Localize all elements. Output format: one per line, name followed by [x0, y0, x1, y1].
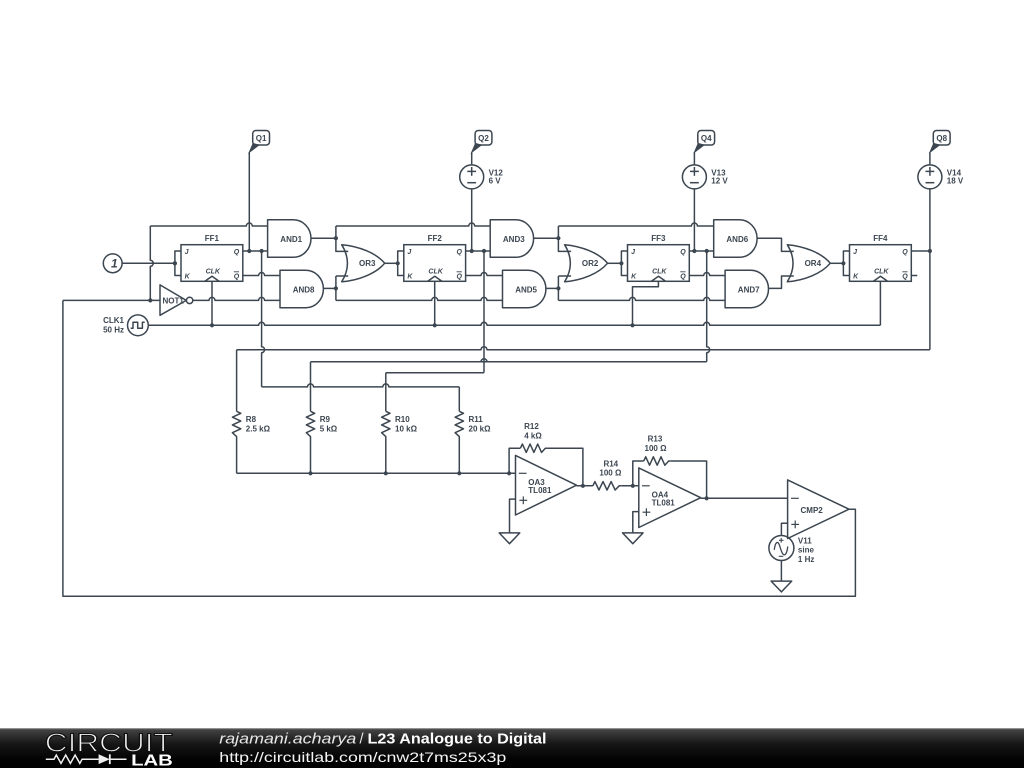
svg-text:NOT1: NOT1	[163, 296, 185, 305]
wire	[148, 322, 880, 327]
wire	[689, 273, 725, 276]
or gate OR2	[565, 245, 608, 282]
wire	[243, 249, 268, 253]
and gate AND1	[268, 220, 311, 257]
probe flag Q8	[930, 131, 950, 153]
svg-text:L23 Analogue to Digital: L23 Analogue to Digital	[368, 732, 547, 748]
wire	[558, 226, 571, 251]
inverter NOT1	[160, 285, 193, 315]
svg-text:TL081: TL081	[652, 498, 676, 507]
svg-text:sine: sine	[798, 546, 815, 555]
svg-text:R14: R14	[603, 459, 618, 468]
resistor R8	[232, 411, 270, 438]
wire	[701, 497, 788, 499]
svg-text:4 kΩ: 4 kΩ	[524, 431, 542, 440]
svg-text:18 V: 18 V	[947, 176, 964, 185]
probe flag Q2	[472, 131, 492, 153]
svg-text:6 V: 6 V	[489, 176, 502, 185]
wire	[384, 439, 388, 476]
probe flag Q1	[249, 131, 269, 153]
svg-text:Q: Q	[902, 274, 908, 281]
svg-text:Q: Q	[680, 249, 686, 256]
svg-text:FF2: FF2	[428, 234, 443, 243]
footer bar	[0, 728, 1024, 768]
wire	[929, 189, 931, 251]
wire	[457, 439, 461, 476]
svg-text:Q4: Q4	[701, 134, 712, 143]
wire	[308, 439, 312, 476]
svg-text:AND7: AND7	[738, 286, 760, 295]
wire	[633, 461, 644, 486]
resistor R12	[520, 422, 547, 453]
resistor R10	[382, 411, 418, 438]
wire	[558, 276, 571, 300]
svg-text:Q: Q	[234, 274, 240, 281]
or gate OR4	[787, 245, 830, 282]
svg-text:100 Ω: 100 Ω	[599, 469, 622, 478]
wire	[434, 281, 436, 325]
wire	[509, 448, 520, 473]
wire	[211, 281, 213, 325]
and gate AND6	[714, 220, 757, 257]
svg-text:AND1: AND1	[280, 235, 302, 244]
and gate AND8	[280, 270, 323, 308]
flip-flop FF2	[396, 234, 466, 281]
wire	[780, 561, 782, 582]
voltage source V14	[918, 165, 964, 189]
svg-text:CLK: CLK	[874, 269, 889, 276]
svg-text:1: 1	[111, 257, 118, 271]
svg-text:12 V: 12 V	[711, 176, 728, 185]
or gate OR3	[342, 245, 385, 282]
footer title text	[219, 732, 546, 748]
svg-text:Q: Q	[680, 274, 686, 281]
wire	[122, 261, 177, 265]
clock source CLK1	[103, 315, 148, 336]
and gate AND7	[725, 270, 768, 308]
comparator CMP2	[788, 480, 849, 539]
svg-text:2.5 kΩ: 2.5 kΩ	[246, 425, 271, 434]
wire	[633, 281, 659, 325]
svg-text:Q: Q	[902, 249, 908, 256]
svg-text:Q1: Q1	[256, 134, 267, 143]
wire	[311, 251, 710, 411]
resistor R9	[306, 411, 338, 438]
svg-text:AND5: AND5	[515, 286, 537, 295]
svg-text:CLK: CLK	[652, 269, 667, 276]
op-amp OA3	[516, 455, 577, 515]
resistor R11	[455, 411, 491, 438]
svg-text:R8: R8	[246, 415, 257, 424]
svg-text:Q: Q	[457, 249, 463, 256]
svg-text:10 kΩ: 10 kΩ	[395, 425, 418, 434]
wire	[693, 152, 695, 165]
wire	[621, 484, 639, 488]
svg-text:Q8: Q8	[936, 134, 947, 143]
svg-text:Q2: Q2	[478, 134, 489, 143]
svg-text:Q: Q	[234, 249, 240, 256]
svg-text:AND8: AND8	[293, 286, 315, 295]
ground	[499, 533, 520, 544]
flip-flop FF4	[841, 234, 911, 281]
svg-text:AND6: AND6	[726, 235, 748, 244]
svg-text:OR3: OR3	[359, 259, 376, 268]
svg-text:V11: V11	[798, 536, 812, 545]
wire	[336, 297, 503, 300]
svg-text:R9: R9	[320, 415, 331, 424]
svg-text:R12: R12	[524, 422, 539, 431]
wire	[243, 273, 280, 276]
wire	[237, 471, 516, 475]
wire	[911, 249, 932, 253]
wire	[781, 523, 787, 535]
wire	[148, 226, 153, 303]
svg-text:OR2: OR2	[582, 259, 599, 268]
wire	[323, 286, 338, 290]
wire	[248, 152, 250, 251]
wire	[336, 226, 348, 251]
svg-text:5 kΩ: 5 kΩ	[320, 425, 338, 434]
sine source V11	[769, 536, 815, 565]
wire	[546, 286, 560, 290]
svg-text:http://circuitlab.com/cnw2t7ms: http://circuitlab.com/cnw2t7ms25x3p	[219, 749, 506, 765]
wire	[386, 251, 484, 411]
wire	[510, 499, 516, 533]
wire	[385, 262, 398, 264]
wire	[558, 223, 713, 226]
svg-text:OR4: OR4	[805, 259, 822, 268]
svg-text:R11: R11	[469, 415, 484, 424]
svg-text:CLK: CLK	[428, 269, 443, 276]
svg-text:FF1: FF1	[205, 234, 220, 243]
wire	[830, 262, 843, 264]
wire	[466, 273, 503, 276]
wire	[262, 251, 460, 411]
wire	[769, 276, 794, 288]
wire	[911, 275, 917, 277]
voltage source V12	[460, 165, 504, 189]
wire	[689, 249, 713, 253]
wire	[633, 512, 639, 533]
svg-text:50 Hz: 50 Hz	[103, 325, 124, 334]
svg-text:TL081: TL081	[528, 486, 552, 495]
footer url text	[219, 749, 506, 765]
and gate AND5	[503, 270, 546, 308]
CircuitLab logo	[45, 730, 173, 768]
svg-text:1 Hz: 1 Hz	[798, 555, 814, 564]
wire	[471, 152, 473, 165]
svg-text:CLK1: CLK1	[103, 316, 124, 325]
wire	[336, 223, 490, 226]
svg-text:100 Ω: 100 Ω	[645, 444, 668, 453]
svg-text:20 kΩ: 20 kΩ	[469, 425, 492, 434]
probe flag Q4	[694, 131, 714, 153]
svg-text:CLK: CLK	[206, 269, 221, 276]
wire	[534, 236, 561, 240]
svg-text:FF4: FF4	[873, 234, 888, 243]
digital constant source 1	[103, 254, 122, 273]
resistor R14	[593, 459, 622, 490]
wire	[311, 236, 338, 240]
and gate AND3	[490, 220, 533, 257]
op-amp OA4	[639, 468, 701, 528]
ground	[623, 533, 644, 544]
wire	[336, 276, 348, 300]
wire	[236, 439, 238, 474]
wire	[63, 299, 160, 301]
svg-text:LAB: LAB	[131, 752, 173, 768]
wire	[671, 461, 709, 500]
wire	[879, 281, 881, 325]
flip-flop FF3	[619, 234, 689, 281]
wire	[757, 238, 794, 251]
wire	[693, 189, 695, 251]
svg-text:R10: R10	[395, 415, 410, 424]
wire	[193, 297, 280, 300]
wire	[558, 297, 725, 300]
svg-text:Q: Q	[457, 274, 463, 281]
wire	[608, 262, 622, 264]
wire	[150, 223, 267, 226]
wire	[237, 251, 930, 411]
resistor R13	[644, 435, 671, 466]
voltage source V13	[682, 165, 728, 189]
ground	[771, 581, 792, 592]
flip-flop FF1	[173, 234, 243, 281]
svg-text:AND3: AND3	[503, 235, 525, 244]
wire	[929, 152, 931, 165]
svg-text:FF3: FF3	[651, 234, 666, 243]
svg-text:R13: R13	[648, 435, 663, 444]
wire	[63, 300, 856, 596]
wire	[466, 249, 491, 253]
svg-text:CMP2: CMP2	[801, 506, 824, 515]
wire	[471, 189, 473, 251]
wire	[547, 448, 585, 488]
svg-text:rajamani.acharya: rajamani.acharya	[219, 732, 356, 748]
wire	[577, 485, 593, 487]
